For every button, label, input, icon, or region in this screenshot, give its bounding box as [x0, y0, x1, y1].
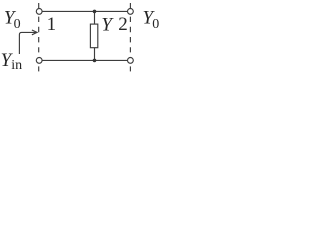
- svg-text:1: 1: [47, 14, 57, 35]
- svg-text:in: in: [11, 58, 22, 73]
- svg-text:2: 2: [118, 14, 128, 35]
- svg-text:0: 0: [152, 17, 159, 32]
- svg-text:0: 0: [14, 17, 21, 32]
- svg-text:Y: Y: [101, 15, 114, 36]
